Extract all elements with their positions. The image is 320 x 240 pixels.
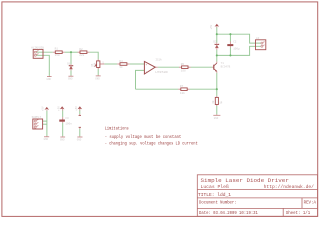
R7 pin stubs xyxy=(178,88,181,90)
wire supply pin1 to vcc riser xyxy=(43,120,47,122)
wire D2 up to VCC rail xyxy=(216,28,218,43)
svg-text:C2: C2 xyxy=(233,40,237,43)
wire pot wiper to R4 xyxy=(104,63,117,65)
svg-text:- changing sup. voltage change: - changing sup. voltage changes LD curre… xyxy=(105,141,198,146)
C3 pin stubs xyxy=(62,117,64,119)
vcc arrow supply branch1 xyxy=(45,107,50,110)
svg-text:100: 100 xyxy=(181,69,186,72)
zener diode D1 xyxy=(69,64,73,67)
capacitor C4 plates xyxy=(79,114,81,116)
resistor R2 xyxy=(80,51,87,54)
capacitor C2 xyxy=(227,44,233,46)
wire op-amp output to R6 xyxy=(158,66,179,68)
C4 pin stubs xyxy=(79,114,81,115)
svg-text:Sheet: 1/1: Sheet: 1/1 xyxy=(286,210,311,216)
svg-text:100n: 100n xyxy=(65,122,72,125)
svg-text:Date: 03.04.2009 10:19:31: Date: 03.04.2009 10:19:31 xyxy=(199,210,258,216)
resistor R4 xyxy=(120,63,127,66)
svg-text:C3: C3 xyxy=(65,117,69,120)
svg-text:22k: 22k xyxy=(79,53,84,57)
R6 pin stubs xyxy=(179,66,182,68)
wire R8 to GND xyxy=(216,106,218,114)
svg-text:R6: R6 xyxy=(181,63,185,66)
vcc arrow top xyxy=(215,24,220,27)
svg-text:GND: GND xyxy=(44,138,49,141)
transistor collector stub xyxy=(216,62,218,64)
R4 pin stubs xyxy=(117,63,120,65)
svg-text:R4: R4 xyxy=(119,60,123,63)
svg-text:150: 150 xyxy=(55,54,60,57)
wire C2 bottom branch xyxy=(229,48,231,56)
connector LD body xyxy=(256,40,266,50)
wire D1 to GND xyxy=(70,70,72,75)
gnd stubs xyxy=(70,75,72,78)
connector SUPPLY body xyxy=(33,119,43,129)
svg-text:Lucas Pleß: Lucas Pleß xyxy=(201,184,229,190)
svg-text:GND: GND xyxy=(77,138,82,141)
zener diode D2 xyxy=(215,43,219,46)
svg-text:R8: R8 xyxy=(212,100,215,104)
wire R2 to pot corner xyxy=(89,52,98,59)
transistor T1 xyxy=(214,63,217,71)
node R1-R2-D1 junction xyxy=(70,51,72,53)
wire supply riser xyxy=(46,111,48,137)
D2 pin stubs xyxy=(216,43,218,44)
vcc arrow stem xyxy=(216,26,218,27)
vcc arrow branch2 xyxy=(60,106,65,109)
connector X1 pins xyxy=(34,51,38,57)
op-amp output stub xyxy=(155,66,158,68)
connector LD pins xyxy=(261,42,265,48)
svg-text:GND: GND xyxy=(95,77,100,80)
potentiometer R5 xyxy=(97,61,100,68)
svg-text:ALIM/CON: ALIM/CON xyxy=(31,45,44,49)
svg-text:REV:A: REV:A xyxy=(304,200,317,206)
svg-text:10k: 10k xyxy=(93,62,96,67)
wire R1 to junction to R2 xyxy=(65,51,78,53)
svg-text:+5V: +5V xyxy=(75,106,78,111)
wire branch2 vcc to C3 xyxy=(62,110,64,117)
C2 pin stubs xyxy=(229,42,231,45)
ground below pot xyxy=(96,75,101,77)
wire R7 to feedback corner xyxy=(136,88,179,90)
svg-text:GND: GND xyxy=(214,117,219,120)
svg-text:100µ: 100µ xyxy=(233,48,240,51)
node emitter feedback junction xyxy=(216,88,218,90)
wire C2 top branch xyxy=(229,34,231,41)
wire feedback to op-amp minus input xyxy=(136,70,145,89)
wire C3 to GND xyxy=(62,123,64,137)
junction dots xyxy=(70,33,232,90)
transistor emitter stub xyxy=(216,71,218,73)
svg-text:10k: 10k xyxy=(180,91,185,95)
resistor R1 xyxy=(55,51,62,54)
svg-text:1R: 1R xyxy=(219,102,223,105)
connector SUPPLY pins xyxy=(34,119,38,128)
resistor R8 xyxy=(215,97,218,104)
connector X1 body xyxy=(33,49,43,58)
resistor R6 xyxy=(182,66,188,69)
wire X1 pin2 to GND xyxy=(37,55,50,76)
svg-text:Limitations: Limitations xyxy=(105,127,129,132)
capacitor C3 xyxy=(59,120,65,122)
ground branch2 xyxy=(60,136,65,138)
op-amp IC1A xyxy=(144,61,155,74)
wire top rail to LD riser xyxy=(217,34,261,43)
svg-text:- supply voltage must be const: - supply voltage must be constant xyxy=(105,135,182,140)
D1 pin stubs xyxy=(70,64,72,65)
wire collector up to D2 xyxy=(216,50,218,62)
node top rail junction xyxy=(216,33,218,35)
R2 pin stubs xyxy=(78,51,81,53)
svg-text:LD: LD xyxy=(256,37,260,40)
svg-text:R2: R2 xyxy=(79,48,83,51)
title block xyxy=(197,175,317,217)
wire feedback junction to R7 xyxy=(190,88,217,90)
svg-text:R1: R1 xyxy=(55,48,59,51)
svg-text:http://ndeanwk.de/: http://ndeanwk.de/ xyxy=(264,184,315,190)
R8 pin stubs xyxy=(216,96,218,98)
resistor R7 xyxy=(181,88,187,91)
R1 pin stubs xyxy=(53,51,56,53)
wire R4 to op-amp plus input xyxy=(130,63,145,65)
svg-text:Simple Laser Diode Driver: Simple Laser Diode Driver xyxy=(201,177,289,184)
svg-text:LM358D: LM358D xyxy=(155,70,168,74)
node C2 bottom junction xyxy=(229,54,231,56)
svg-text:GND: GND xyxy=(60,138,65,141)
wire lower rail to LD riser xyxy=(217,46,261,55)
ground below D1 xyxy=(68,75,73,77)
wire junction down to D1 xyxy=(70,52,72,64)
pot pin stubs xyxy=(97,59,99,61)
node collector-D2 junction xyxy=(216,54,218,56)
ground below R8 xyxy=(213,114,220,116)
wire R6 to transistor base xyxy=(191,66,213,68)
svg-text:D2: D2 xyxy=(213,40,217,43)
wire C4 to GND xyxy=(79,129,81,137)
svg-text:GND: GND xyxy=(47,78,52,81)
transistor base stub xyxy=(212,66,214,68)
svg-text:GND: GND xyxy=(68,78,73,81)
svg-text:TITLE: ldd_1: TITLE: ldd_1 xyxy=(198,192,231,198)
svg-text:+5V: +5V xyxy=(58,106,61,111)
wire supply pin2 to riser xyxy=(43,123,47,125)
wire X1 pin1 to R1 xyxy=(37,51,53,53)
svg-text:IC1A: IC1A xyxy=(155,59,162,62)
svg-text:D1: D1 xyxy=(67,62,71,65)
svg-text:BC547B: BC547B xyxy=(221,66,231,69)
wire emitter down to R8 xyxy=(216,73,218,96)
svg-text:Document Number:: Document Number: xyxy=(199,200,237,206)
vcc arrow branch3 xyxy=(78,106,83,109)
svg-text:+5V: +5V xyxy=(42,106,45,111)
svg-text:SUPPLY: SUPPLY xyxy=(32,116,42,119)
svg-text:+5V: +5V xyxy=(210,24,213,29)
wire pot bottom to GND xyxy=(97,69,99,75)
ground supply branch1 xyxy=(44,136,49,138)
svg-text:R7: R7 xyxy=(180,85,184,88)
node C2 top junction xyxy=(229,33,231,35)
ground branch3 xyxy=(77,136,82,138)
ground below X1 xyxy=(47,76,52,78)
svg-text:1k: 1k xyxy=(119,65,123,69)
wire branch3 vcc to C4 xyxy=(79,110,81,114)
supply vcc stems xyxy=(46,109,48,112)
